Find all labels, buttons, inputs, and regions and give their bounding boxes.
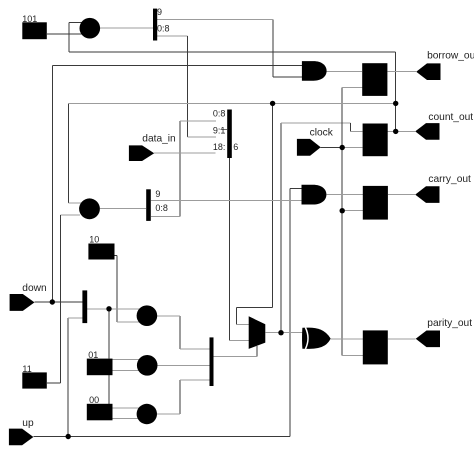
wire Q vert x396 <box>395 52 397 131</box>
wire ripper2 bit9 out <box>151 199 302 201</box>
wire net Q feedback to buf1 top <box>69 21 85 23</box>
wire down port run <box>35 301 83 303</box>
wire mux out vert x281 <box>280 123 282 333</box>
flip-flop FF3 carry <box>363 186 388 220</box>
input port data_in <box>129 145 154 161</box>
flip-flop FF1 borrow <box>362 63 387 96</box>
wire combiner bus vert x229 <box>228 158 230 340</box>
wire combiner in2 stub <box>221 128 228 130</box>
wire ff1 Q to borrow port <box>387 71 416 73</box>
svg-text:down: down <box>22 283 46 294</box>
wire cmp4 out <box>158 364 210 366</box>
svg-text:10: 10 <box>89 234 99 244</box>
junction clock ff3 <box>340 208 345 213</box>
svg-text:11: 11 <box>22 364 31 374</box>
input port clock <box>297 139 321 156</box>
wire ripper1 low out <box>157 35 188 37</box>
svg-text:00: 00 <box>89 395 99 405</box>
svg-text:borrow_out: borrow_out <box>427 50 474 61</box>
and gate AND1 (borrow) <box>302 61 327 81</box>
wire const10 vert x118 <box>116 256 118 322</box>
flip-flop FF4 parity <box>363 330 388 364</box>
wire net Q feedback long run y52 <box>69 51 396 53</box>
wire ripper1 bit9 to AND1 lower <box>273 76 303 78</box>
output port count_out <box>415 123 439 140</box>
junction up-x68 <box>66 434 71 439</box>
wire countQ bus left vert x68 <box>68 103 70 202</box>
wire up port run <box>33 436 289 438</box>
constant 10 <box>88 244 114 260</box>
output port parity_out <box>416 331 440 348</box>
wire concat3 out to mux select <box>214 355 257 357</box>
wire mux out to ff2 jog v <box>349 123 351 131</box>
input port down <box>10 294 35 311</box>
wire mux out to ff2 jog h <box>281 122 350 124</box>
constant 00 <box>87 404 113 421</box>
wire updown bus to cmp5 upper <box>113 407 141 409</box>
wire updown bus to cmp4 upper <box>113 359 141 361</box>
svg-text:18:: 18: <box>213 142 226 152</box>
wire combiner bus to mux in2 <box>229 339 250 341</box>
wire buf1 out <box>100 27 153 29</box>
output port carry_out <box>415 186 439 203</box>
wire clock vert x341 <box>341 87 343 355</box>
wire ripper2 low out <box>151 216 180 218</box>
bus concat updown <box>82 290 87 323</box>
wire xor out to ff4 D <box>331 338 363 340</box>
mux (2:1) <box>249 316 266 349</box>
wire mux out to xor <box>265 332 303 334</box>
xor gate (parity) input arc slit <box>305 328 308 350</box>
input port up <box>9 429 34 446</box>
wire countQ bus to mux jog h <box>236 307 272 309</box>
junction clock ff2 <box>340 145 345 150</box>
wire ripper1 low to combiner <box>188 136 216 138</box>
cmp node 3 (10) <box>137 305 158 326</box>
wire const11 vert x60 <box>59 215 61 383</box>
wire down branch vert x52 <box>51 65 53 302</box>
svg-text:9: 9 <box>155 189 160 199</box>
svg-text:9:1: 9:1 <box>213 126 226 136</box>
wire ripper2 low vert x180 <box>179 121 181 217</box>
junction updown bus <box>106 306 111 311</box>
wire cmp5 out to concat3 in3 <box>180 379 210 381</box>
wire cmp2 out <box>100 207 146 209</box>
svg-text:count_out: count_out <box>428 112 473 123</box>
wire data_in run <box>154 152 216 154</box>
svg-text:0:8: 0:8 <box>213 108 226 118</box>
bus concat3 select <box>210 337 214 386</box>
wire ripper1 low vert x188 <box>187 36 189 137</box>
cmp node 2 (11) <box>79 198 100 219</box>
wire clock to ff4 <box>342 354 363 356</box>
svg-text:parity_out: parity_out <box>427 318 472 329</box>
wire clock to ff1 <box>342 86 362 88</box>
wire ripper1 bit9 vert x273 <box>272 19 274 77</box>
wire countQ bus to mux jog v <box>235 308 237 325</box>
junction mux out <box>278 330 283 335</box>
wire countQ bus y103 <box>69 102 396 104</box>
wire const11 out <box>47 382 61 384</box>
wire clock port to dot <box>321 147 343 149</box>
wire AND2 out to ff3 D <box>326 194 362 196</box>
wire mux out to ff2 D <box>350 130 362 132</box>
cmp node 5 (00) <box>137 404 157 424</box>
wire clock dot to ff2 <box>342 147 362 149</box>
wire cmp5 out vert x180 <box>179 380 181 414</box>
wire ff4 Q to parity port <box>388 338 416 340</box>
bus ripper 9/0:8 top <box>153 9 157 41</box>
constant 101 <box>22 22 47 39</box>
wire mux select vert <box>256 346 258 357</box>
bus combiner 0:8/9:17/18:26 <box>227 110 232 159</box>
svg-text:9: 9 <box>157 7 162 17</box>
wire up to AND2 upper <box>290 187 303 189</box>
svg-text:carry_out: carry_out <box>428 174 471 185</box>
wire AND1 out to ff1 D <box>327 71 363 73</box>
wire down to AND1 upper y64 <box>52 64 303 66</box>
wire ff2 Q to count port <box>388 130 416 132</box>
wire updown bus vert x109 a <box>108 309 110 359</box>
wire const10 out stub <box>114 255 117 257</box>
wire ff3 Q to carry port <box>388 194 415 196</box>
junction ff2 Q <box>393 129 398 134</box>
svg-text:data_in: data_in <box>142 134 175 145</box>
junction down-x52 <box>50 299 55 304</box>
svg-text:0:8: 0:8 <box>157 23 170 33</box>
svg-text:0:8: 0:8 <box>155 203 168 213</box>
wire const01 to cmp4 lower <box>113 370 141 372</box>
wire cmp3 out <box>157 315 180 317</box>
wire concat4 out <box>87 308 140 310</box>
wire cmp3 out vert x180 <box>179 316 181 349</box>
wire countQ bus to mux in1 <box>236 324 250 326</box>
flip-flop FF2 count <box>363 124 388 157</box>
wire countQ bus vert x273 <box>272 103 274 307</box>
output port borrow_out <box>416 63 440 80</box>
wire ripper2 low to combiner <box>180 120 216 122</box>
wire updown bus vert x109 b <box>108 375 110 404</box>
wire net Q feedback upper vert <box>68 22 70 52</box>
wire const101 to buf1 <box>47 33 85 35</box>
junction countQ-x396 <box>393 101 398 106</box>
wire countQ bus to cmp2 upper <box>69 202 86 204</box>
wire const10 to cmp3 lower <box>117 321 140 323</box>
svg-text:01: 01 <box>88 350 98 360</box>
wire cmp3 out to concat3 in1 <box>180 348 210 350</box>
constant 01 <box>87 359 113 376</box>
wire clock to ff3 <box>342 210 363 212</box>
bus ripper 9/0:8 mid <box>146 189 151 221</box>
wire const00 to cmp5 lower <box>113 418 141 420</box>
xor gate (parity) body <box>302 328 331 349</box>
constant 11 <box>22 372 47 388</box>
svg-text:up: up <box>22 418 34 429</box>
and gate AND2 (carry) <box>302 185 327 205</box>
svg-text:6: 6 <box>233 142 238 152</box>
wire cmp5 out <box>157 413 180 415</box>
cmp node 4 (01) <box>137 355 158 376</box>
buffer/cmp node 1 <box>80 18 101 39</box>
wire up branch to concat4 <box>68 317 82 319</box>
svg-text:101: 101 <box>22 14 37 24</box>
svg-text:clock: clock <box>310 128 334 139</box>
wire ripper1 bit9 out <box>157 18 273 20</box>
wire up vert x290 to AND2 <box>289 188 291 436</box>
junction countQ-x273 <box>270 101 275 106</box>
wire up branch vert x68 <box>67 318 69 437</box>
wire const11 to cmp2 lower <box>60 214 80 216</box>
